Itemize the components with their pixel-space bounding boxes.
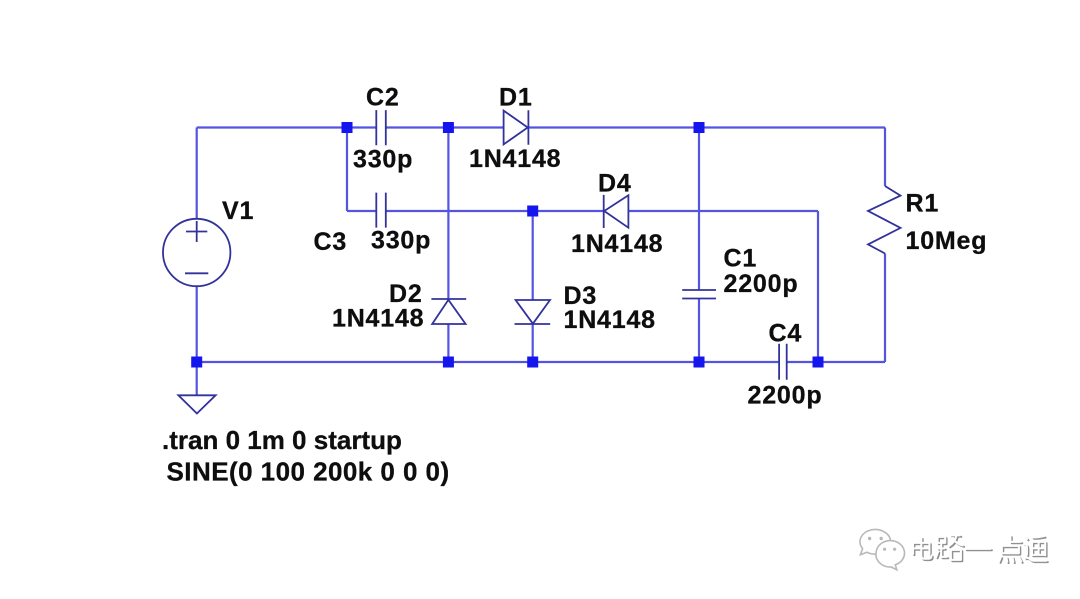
svg-text:2200p: 2200p bbox=[724, 270, 799, 298]
svg-text:2200p: 2200p bbox=[748, 382, 823, 410]
svg-text:C3: C3 bbox=[314, 228, 348, 256]
svg-text:10Meg: 10Meg bbox=[906, 227, 988, 255]
svg-text:D4: D4 bbox=[598, 169, 632, 197]
svg-text:C2: C2 bbox=[366, 83, 400, 111]
svg-text:.tran 0 1m 0 startup: .tran 0 1m 0 startup bbox=[162, 425, 402, 455]
svg-text:330p: 330p bbox=[371, 227, 431, 255]
svg-text:D1: D1 bbox=[499, 83, 533, 111]
svg-text:1N4148: 1N4148 bbox=[332, 305, 424, 333]
svg-text:C1: C1 bbox=[724, 245, 758, 273]
svg-text:C4: C4 bbox=[769, 320, 803, 348]
svg-text:R1: R1 bbox=[906, 190, 940, 218]
svg-text:SINE(0 100 200k 0 0 0): SINE(0 100 200k 0 0 0) bbox=[167, 457, 450, 487]
svg-text:V1: V1 bbox=[222, 197, 254, 225]
svg-text:330p: 330p bbox=[353, 145, 413, 173]
svg-text:1N4148: 1N4148 bbox=[469, 145, 561, 173]
svg-text:1N4148: 1N4148 bbox=[564, 306, 656, 334]
svg-text:1N4148: 1N4148 bbox=[571, 230, 663, 258]
